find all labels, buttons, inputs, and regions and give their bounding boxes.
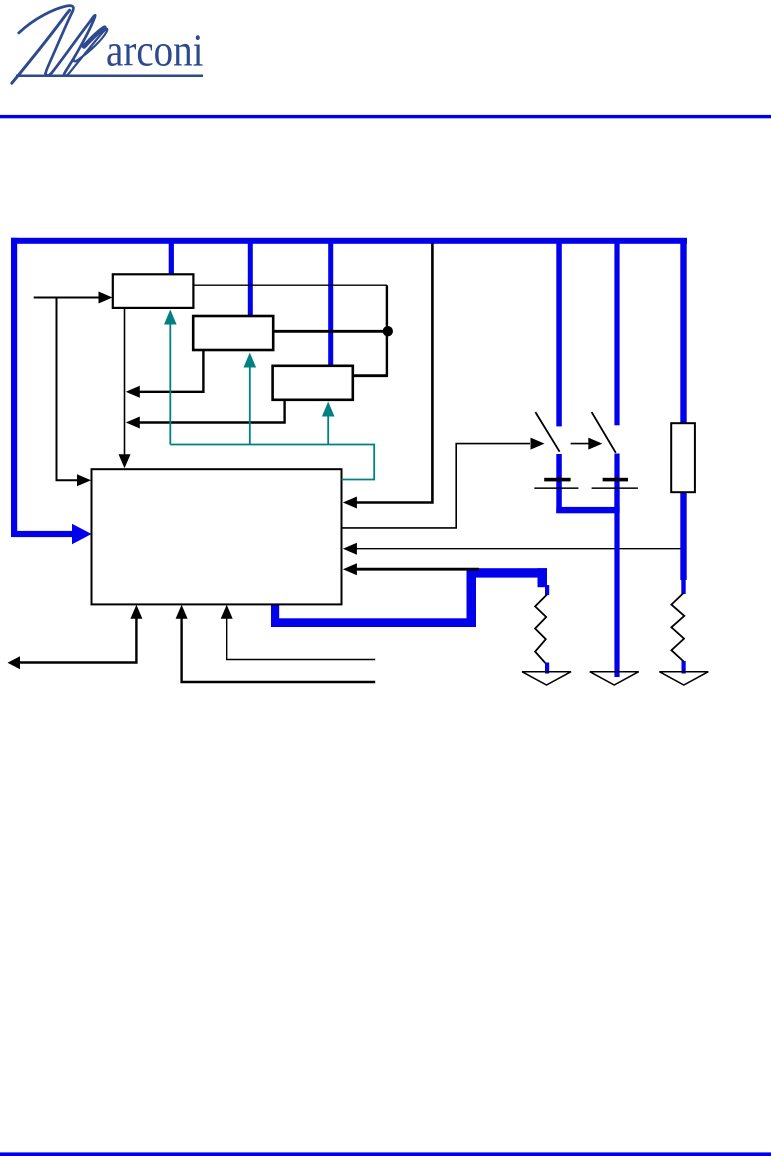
regulator box 1 [113,274,194,308]
switch 2 blade [592,412,616,453]
wire: left vertical branch [57,297,79,481]
arrow: into control box left [77,474,91,486]
wire: blue battery rail down to ground [614,490,619,677]
wire: control box bottom input 3 [227,616,376,660]
ground symbol 2 [590,672,639,685]
wire: blue drop to regulator box 1 [169,242,174,276]
wire: raw supply tap down right of boxes [356,243,432,503]
wire: input feed to regulator box 1 [34,297,100,299]
wire: blue output stub from control box bottom [271,604,279,624]
wire: output bus vertical [386,285,388,376]
footer rule [0,1152,771,1156]
wire: blue riser at x471 [467,568,477,627]
arrow: teal into regulator 1 [164,310,177,325]
wire: blue elbow into control box [11,531,74,537]
wire: control box bottom output to left arrow [19,616,136,663]
wire: blue stub left resistor to ground [545,663,549,674]
header rule [0,115,771,118]
arrow: up into control box bottom (3) [221,605,233,619]
wire: teal riser to regulator 2 [249,367,251,445]
arrow: teal into regulator 3 [322,402,335,417]
arrow: blue supply into control box [72,524,92,544]
wire: teal riser to regulator 3 [327,414,329,445]
ground symbol 1 [522,672,571,685]
ground symbol 3 [659,672,708,685]
switch 1 blade [535,412,559,452]
arrow: at switch 1 [531,438,545,450]
arrow: down into control box top [119,454,131,468]
wire: regulator 1 output (thin) [194,284,387,286]
wire: blue battery bottoms connect [556,507,619,513]
wire: regulator 1 bottom feed down to control box [124,308,126,456]
resistor (zigzag) left [535,595,547,664]
wire: blue drop into left resistor [538,568,548,587]
arrow: output to the left [8,656,21,669]
arrow: teal into regulator 2 [244,353,257,368]
regulator box 2 [193,316,273,350]
wire: blue drop to switch 2 [614,242,619,425]
wire: regulator 3 bottom branch [139,400,285,423]
Marconi logo underline [16,75,203,78]
wire: blue top run to left resistor [467,568,548,577]
battery 2 plate long [592,487,638,489]
wire: link arrow between switches [571,443,589,445]
wire: blue switch 1 to battery 1 [556,454,562,513]
resistor (zigzag) right [671,593,684,661]
wire: blue stub right resistor to ground [682,661,686,674]
svg-text:arconi: arconi [106,24,204,75]
wire: battery node sense line [356,568,479,571]
arrow: raw supply into control box right [343,497,357,509]
node: output junction dot [383,326,393,336]
teal: feedback path from control box to regulators [170,322,374,480]
wire: regulator 2 bottom branch [139,350,203,392]
arrow: into vertical feed at y423 [126,417,140,429]
wire: sense line from +V standby rail to control box (drawn under blue) [348,548,683,550]
wire: control box bottom input 2 [182,616,376,682]
wire: blue drop to regulator box 3 [328,242,333,368]
wire: blue left vertical rail [11,238,17,537]
wire: blue top supply bus [11,238,687,244]
battery 1 plate short [544,478,570,482]
arrow: up into control box bottom (1) [130,605,142,619]
battery 1 plate long [534,487,578,489]
arrow: up into control box bottom (2) [176,605,188,619]
battery 2 plate short [603,478,628,482]
wire: teal riser to regulator 1 [169,322,171,445]
resistor (rectangle) on right rail [671,423,695,492]
wire: blue bottom horizontal run [271,618,476,627]
wire: teal from control box right [170,445,374,480]
arrow: at switch 2 [588,438,602,450]
control box (large) [92,469,342,604]
wire: blue right vertical rail [680,242,686,424]
wire: blue right rail below resistor rectangle [680,490,686,580]
arrow: standby sense into control box [343,543,357,555]
arrow: into regulator box 1 [99,292,113,304]
arrow: battery node sense into control box [343,563,357,575]
wire: regulator 3 output link [353,374,388,377]
regulator box 3 [273,366,353,400]
wire: blue thin stub to left resistor top [545,585,549,595]
wire: blue switch 2 to battery 2 [614,454,619,514]
Marconi logo script M [12,6,108,84]
wire: regulator 2 output [273,330,387,333]
wire: blue drop to switch 1 [556,242,562,426]
wire: control box output to switches [342,444,531,528]
arrow: into vertical feed at y392 [126,386,140,398]
wire: blue drop to regulator box 2 [248,242,253,318]
